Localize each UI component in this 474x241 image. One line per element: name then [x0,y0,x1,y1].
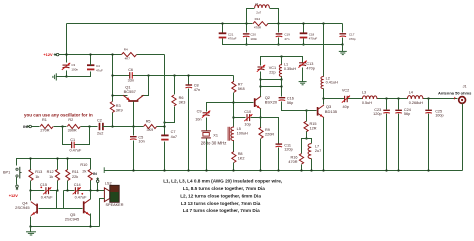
node C15 left junction [29,189,31,191]
capacitor C1 bypass loop [63,127,72,145]
resistor R8 [232,152,236,163]
resistor R15 [306,111,308,122]
svg-text:L3 13 turns close together, 7m: L3 13 turns close together, 7mm Dia [181,201,261,206]
svg-text:C2: C2 [97,119,102,123]
inductor L5 100uH [231,127,234,141]
svg-text:5K8: 5K8 [238,87,245,91]
svg-text:BC557: BC557 [124,89,137,94]
svg-text:R5: R5 [146,119,151,123]
svg-text:+12V: +12V [9,193,19,198]
svg-text:47uF: 47uF [96,69,103,73]
capacitor C4 [87,64,94,66]
resistor R4 [122,53,137,57]
wire R16 branch [302,139,307,154]
wire C3-C4 ground link [67,72,91,77]
node C23 junction [385,97,387,99]
variable capacitor VC1 [258,66,265,68]
inductor L1 [281,57,283,65]
wire emitter line left [234,117,246,119]
node Q1 base / C5 junction [132,125,134,127]
wire Q2 emitter vertical [260,109,262,118]
transistor Q3 [317,107,319,116]
svg-text:L2, 12 turns close together, 6: L2, 12 turns close together, 6mm Dia [180,193,261,198]
svg-text:0.47uF: 0.47uF [75,196,88,200]
node C18 bottom junction [302,43,304,45]
svg-text:1k: 1k [49,175,53,179]
wire Q3 base lead [307,110,317,112]
wire Q5 emitter vertical [90,214,92,227]
svg-text:IN: IN [93,171,97,176]
+12V power pin [56,53,59,56]
resistor R7 [232,81,236,92]
svg-text:BD135: BD135 [325,109,338,114]
node C19 bottom junction [277,43,279,45]
capacitor C5 [133,127,135,136]
svg-text:470uF: 470uF [309,37,318,41]
wire Q3 collector vertical [323,99,325,105]
svg-text:C17: C17 [349,32,355,36]
svg-text:40p: 40p [343,105,349,109]
node Q5 emitter junction [89,225,91,227]
wire C9 line [207,103,234,112]
node R6 top junction [173,74,175,76]
svg-text:R6: R6 [179,96,184,100]
wire tank rung2 [261,86,282,88]
svg-text:R2: R2 [68,118,73,122]
wire Q2 collector vertical [260,87,262,97]
wire IN to R1 [32,126,40,128]
svg-text:56p: 56p [287,101,293,105]
node C20 bottom junction [245,43,247,45]
+12V audio pin [16,185,19,188]
svg-text:2u7: 2u7 [256,10,261,14]
svg-text:22k: 22k [72,175,78,179]
svg-text:C15: C15 [40,183,47,187]
svg-text:28 to 30 MHz: 28 to 30 MHz [201,140,227,145]
node L1 bottom junction [280,78,282,80]
capacitor C8 [188,76,190,85]
capacitor C15 [31,190,45,192]
resistor R2 [67,124,80,128]
svg-text:47n: 47n [194,88,200,92]
svg-text:SPEAKER: SPEAKER [106,203,124,207]
node L2 top rail junction [322,22,324,24]
svg-text:C6: C6 [128,68,133,72]
resistor R5 [144,124,157,128]
wire riser from +12V rail to top line [66,24,68,55]
svg-text:C7: C7 [171,130,176,134]
transistor Q5 [83,201,85,213]
svg-text:R9: R9 [265,128,270,132]
wire top +12V distribution line [67,23,253,25]
svg-text:R1: R1 [42,118,47,122]
wire C16 bottom to Q3 base line [282,102,307,111]
svg-text:C4: C4 [96,64,100,68]
svg-text:3K9: 3K9 [147,128,154,132]
wire R1 to R2 [54,126,67,128]
wire emitter line right [251,118,279,144]
node C19 top junction [277,22,279,24]
svg-text:BP1: BP1 [3,170,10,174]
wire Q4 emitter vertical [30,217,32,227]
ground audio [30,227,32,232]
node R11 rail junction [66,157,68,159]
node Q1 collector drop junction [147,74,149,76]
capacitor C3 [66,55,68,63]
svg-text:470R: 470R [254,25,262,29]
transistor Q2 [254,98,256,107]
svg-text:0.41uH: 0.41uH [326,81,339,85]
svg-text:1K2: 1K2 [238,156,245,160]
resistor R1 [40,124,53,128]
svg-text:22p: 22p [269,71,275,75]
svg-text:470p: 470p [306,66,314,70]
svg-text:R16: R16 [291,155,298,159]
node C6 line left junction [111,74,113,76]
wire C13 to ground [302,68,304,82]
node C25 junction [427,97,429,99]
node C18 top junction [302,22,304,24]
wire C9 to X1 [206,118,208,131]
svg-text:47n: 47n [284,37,289,41]
svg-text:C8: C8 [194,84,199,88]
node Q1 emitter junction [111,94,113,96]
wire R7 branch vertical [233,76,235,82]
wire audio +12V rail [17,159,91,170]
wire R2 to C2 [81,126,98,128]
inductor L5 [247,9,255,24]
svg-text:R12: R12 [47,170,54,174]
inductor L3 [362,96,377,99]
node R15 bottom junction [305,137,307,139]
svg-text:2SC945: 2SC945 [65,216,80,221]
svg-text:R11: R11 [72,170,79,174]
wire L2 to collector line [323,89,325,99]
svg-text:L5: L5 [255,2,259,6]
svg-text:3K3: 3K3 [179,101,186,105]
wire R6 bottom to supply vertical [165,107,175,123]
resistor R10 [88,169,92,180]
node Q3 base / R15 junction [305,109,307,111]
svg-text:4K7: 4K7 [125,57,131,61]
node Q2 base junction [232,101,234,103]
node tank rung1 left [259,78,261,80]
capacitor C20 [246,24,248,33]
wire Q5 collector vertical [90,191,92,200]
resistor R9 [260,118,262,128]
capacitor C25 [428,99,430,110]
capacitor C2 [99,123,101,130]
svg-text:0.47uF: 0.47uF [41,196,54,200]
node R13 rail junction [29,157,31,159]
resistor R14 [253,22,268,26]
node R2-C2 junction [88,125,90,127]
wire X1 to ground rail [206,139,208,171]
wire L7 branch [307,139,312,144]
wire audio ground line [31,226,100,228]
node bias rail junction [111,53,113,55]
capacitor C10 [246,114,248,121]
wire L1-C16 vertical [281,80,283,97]
capacitor C23 [386,99,388,110]
wire +12V rail [59,54,122,56]
node C3 bottom junction [65,75,67,77]
capacitor C17 [342,24,344,33]
svg-text:1k: 1k [35,175,39,179]
node C4 rail junction [89,53,91,55]
transistor Q4 [30,191,32,201]
wire C11 to ground rail [278,148,280,171]
node L1 top junction [280,55,282,57]
capacitor C24 [398,99,400,110]
transistor Q1 [128,100,138,102]
ground under C17 [342,45,344,52]
wire Q1 collector drop [142,76,149,96]
svg-text:you can use any oscillator for: you can use any oscillator for in [24,112,93,117]
capacitor C18 [303,24,305,33]
svg-text:470R: 470R [288,160,297,164]
capacitor C16 [279,97,286,99]
wire Q4 base lead [39,208,83,210]
svg-text:C10: C10 [244,110,251,114]
capacitor C7 [161,134,168,136]
wire Q1 emitter lead [113,95,128,97]
wire bias vertical [112,55,114,102]
node R11 bottom junction [66,189,68,191]
capacitor C19 [278,24,280,33]
node IN pin junction [96,189,98,191]
wire BP1 to +12V pin [16,178,18,185]
svg-text:2k: 2k [82,169,86,173]
svg-text:L7: L7 [315,145,319,149]
node R10 bottom junction [89,189,91,191]
node R6-supply junction [163,121,165,123]
svg-text:100n: 100n [250,37,257,41]
svg-text:12R: 12R [310,127,317,131]
node C24 junction [397,97,399,99]
wire L2 riser upper [323,24,325,77]
node tank rung2 left [259,85,261,87]
wire VC1 bottom [260,72,262,87]
ground under C13 [299,81,307,83]
resistor R13 [29,169,33,180]
node C2-R3 junction [111,125,113,127]
svg-text:56p: 56p [404,112,410,116]
svg-text:4u7: 4u7 [171,135,177,139]
svg-text:100n: 100n [71,68,78,72]
svg-text:2u2: 2u2 [97,131,103,135]
node C21 top junction [221,22,223,24]
svg-text:R4: R4 [124,48,128,52]
resistor R3 [110,102,114,113]
svg-text:+12V: +12V [43,52,53,57]
svg-text:10n: 10n [138,139,144,143]
svg-text:120p: 120p [373,112,381,116]
node Q3 collector junction [322,97,324,99]
svg-text:C14: C14 [74,183,81,187]
svg-text:C1: C1 [70,138,75,142]
svg-text:Antenna 50 ohms: Antenna 50 ohms [438,90,472,95]
svg-text:100uH: 100uH [237,131,248,135]
resistor R11 [66,169,70,180]
node rail-riser junction [65,53,67,55]
resistor R16 [299,154,303,165]
capacitor C13 [299,62,306,64]
wire Q2 base lead [234,102,254,104]
capacitor C9 [203,112,210,114]
svg-text:270R: 270R [40,129,49,133]
node C20 top junction [245,22,247,24]
svg-text:X1: X1 [213,133,218,137]
svg-text:L4 7 turns close together, 7mm: L4 7 turns close together, 7mm Dia [183,208,260,213]
svg-text:L1, 8.5 turns close together,: L1, 8.5 turns close together, 7mm Dia [183,186,265,191]
svg-text:VC1: VC1 [269,66,276,70]
svg-text:33n: 33n [128,78,134,82]
inductor L7 [308,144,311,159]
variable capacitor VC2 [344,96,346,102]
inductor L2 [321,77,324,89]
svg-text:L4: L4 [409,91,413,95]
wire output line [324,98,345,100]
svg-text:J1: J1 [463,85,467,89]
resistor R6 [174,76,176,95]
svg-text:2SC945: 2SC945 [15,205,30,210]
svg-text:470p: 470p [349,37,356,41]
node rung2 right junction [280,85,282,87]
svg-text:390R: 390R [68,129,77,133]
capacitor C21 [222,24,224,33]
svg-text:220R: 220R [265,133,274,137]
svg-text:2u7: 2u7 [315,149,321,153]
node ground rail junctions [132,169,134,171]
wire Q1 base lead [133,102,135,127]
wire supply vertical right [164,55,166,135]
svg-text:0.47uF: 0.47uF [70,149,83,153]
svg-text:120p: 120p [284,148,292,152]
svg-text:0.35uH: 0.35uH [284,67,297,71]
svg-text:C3: C3 [71,63,75,67]
svg-text:10n: 10n [195,118,201,122]
wire C6 feedback line [113,75,130,77]
wire main ground rail [105,170,463,172]
inductor L4 [407,96,423,99]
svg-text:C9: C9 [197,110,202,114]
capacitor C6 [129,72,131,79]
node R12 rail junction [56,157,58,159]
wire J1 ground drop [462,104,464,171]
capacitor C11 [276,143,283,145]
resistor R12 [55,169,59,180]
svg-text:10p: 10p [244,122,250,126]
wire Q5 base lead [63,191,65,209]
node Q2 emitter junction [259,116,261,118]
node Q4 emitter junction [29,225,31,227]
node C8 top junction [187,74,189,76]
node R1-R2 junction [61,125,63,127]
ground left of C3 [57,76,67,78]
node C17 bottom junction [341,43,343,45]
node C3 top junction [65,53,67,55]
svg-text:L3: L3 [362,91,366,95]
wire speaker pin2 [100,199,105,227]
node R5-supply junction [163,125,165,127]
svg-text:470uF: 470uF [228,37,237,41]
svg-text:R13: R13 [35,170,42,174]
wire tank top [261,57,303,66]
svg-text:100p: 100p [435,114,443,118]
wire tank rung1 [261,79,282,81]
capacitor C14 [64,190,75,192]
svg-text:R10: R10 [80,163,87,167]
wire capacitor-bank ground line [223,44,343,46]
crystal X1 [201,130,211,132]
svg-text:L1, L2, L3, L4 0.8 mm (AWG 20): L1, L2, L3, L4 0.8 mm (AWG 20) insulated… [163,179,282,184]
svg-text:0.268uH: 0.268uH [409,101,424,105]
svg-text:BSX20: BSX20 [265,100,278,105]
wire base bias line [113,126,144,128]
svg-text:0.5uH: 0.5uH [362,101,372,105]
wire Q3 emitter vertical [323,118,325,171]
svg-text:VC2: VC2 [342,89,349,93]
node C10 line left junction [232,116,234,118]
node C15 right junction [56,189,58,191]
svg-text:C11: C11 [284,143,291,147]
svg-text:3K9: 3K9 [116,108,123,112]
svg-text:R14: R14 [255,17,261,21]
